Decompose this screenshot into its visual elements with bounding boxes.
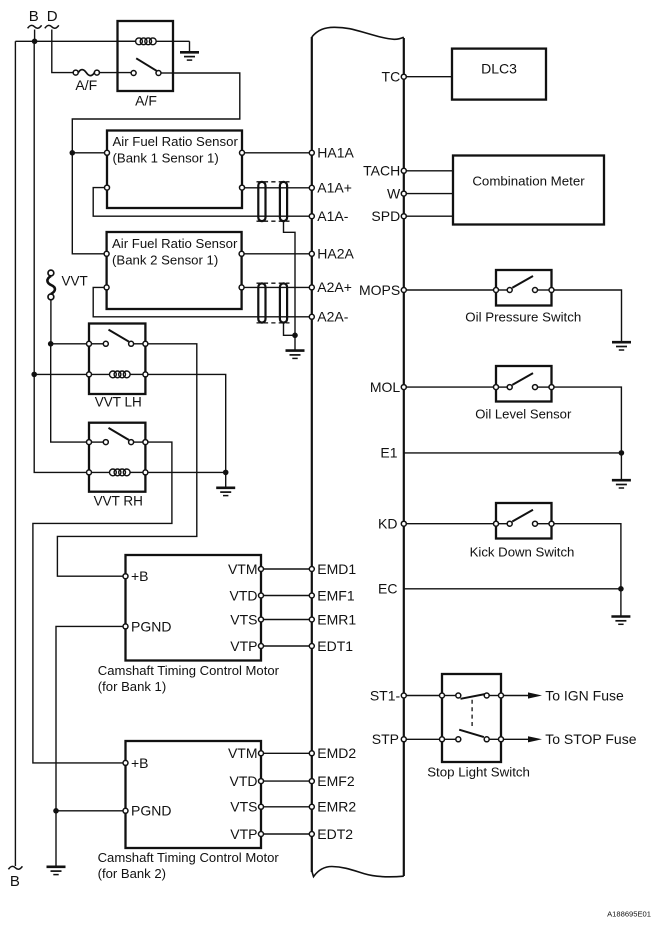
svg-text:E1: E1 xyxy=(380,445,397,461)
pin EDT2 xyxy=(309,832,314,837)
svg-text:Oil Level Sensor: Oil Level Sensor xyxy=(475,407,572,422)
svg-text:VTD: VTD xyxy=(230,587,258,603)
node D top xyxy=(45,8,59,28)
pin SPD xyxy=(401,214,406,219)
wire D vertical xyxy=(52,30,74,73)
pin EMR1 xyxy=(309,617,314,622)
wire ST1- xyxy=(406,695,439,697)
relay A/F coil xyxy=(118,38,190,45)
svg-text:EDT2: EDT2 xyxy=(317,826,353,842)
svg-text:Kick Down Switch: Kick Down Switch xyxy=(470,545,575,560)
arrow STOP xyxy=(528,736,542,742)
relay A/F switch xyxy=(131,58,173,75)
svg-text:EMF2: EMF2 xyxy=(317,773,355,789)
junction dot E1 xyxy=(619,450,625,456)
pin bank2 TL xyxy=(104,251,109,256)
wire feed to bank2 sensor xyxy=(72,153,104,254)
Camshaft Timing Control Motor bank2 box xyxy=(126,741,262,848)
wire MOPS ground xyxy=(554,290,622,341)
Air Fuel Ratio Sensor Bank 2 box xyxy=(107,232,242,309)
wire E1 xyxy=(404,452,622,454)
pin HA2A xyxy=(309,251,314,256)
pin STP xyxy=(401,737,406,742)
wire VTS-EMR2 xyxy=(264,806,310,808)
wire VTM-EMD2 xyxy=(264,752,310,754)
svg-text:EDT1: EDT1 xyxy=(317,638,353,654)
Oil Pressure Switch box xyxy=(496,270,552,306)
junction dot VVT coils ground xyxy=(223,470,229,476)
pin bank2 BL xyxy=(104,285,109,290)
svg-text:VVT LH: VVT LH xyxy=(95,395,142,410)
wire TC xyxy=(406,76,452,78)
svg-text:VTM: VTM xyxy=(228,745,258,761)
svg-text:EMD2: EMD2 xyxy=(317,745,356,761)
svg-text:To IGN Fuse: To IGN Fuse xyxy=(545,687,624,703)
svg-text:DLC3: DLC3 xyxy=(481,60,517,76)
wire STP xyxy=(406,738,439,740)
pin A1A+ xyxy=(309,185,314,190)
svg-text:VTP: VTP xyxy=(230,826,257,842)
svg-text:VTS: VTS xyxy=(230,799,257,815)
wire VTP-EDT2 xyxy=(264,833,310,835)
pin bank1 BR xyxy=(240,185,245,190)
pin EMF1 xyxy=(309,593,314,598)
svg-text:EMD1: EMD1 xyxy=(317,561,356,577)
relay VVT RH box xyxy=(89,423,145,492)
svg-text:VVT: VVT xyxy=(62,274,88,289)
svg-text:EMF1: EMF1 xyxy=(317,587,355,603)
pin EMD1 xyxy=(309,567,314,572)
pin VTM bank1 xyxy=(259,567,264,572)
wire VVT LH coil to ground junction xyxy=(148,374,226,472)
pin MOL xyxy=(401,385,406,390)
relay VVT RH switch xyxy=(87,428,148,445)
wire MOL to E1 junction xyxy=(554,387,621,453)
svg-text:Camshaft Timing Control Motor: Camshaft Timing Control Motor xyxy=(98,663,280,678)
wire MOPS xyxy=(406,289,493,291)
svg-text:A2A+: A2A+ xyxy=(317,279,352,295)
wire VTP-EDT1 xyxy=(264,645,310,647)
ground VVT coils xyxy=(216,472,235,495)
pin VTP bank2 xyxy=(259,832,264,837)
svg-text:STP: STP xyxy=(372,731,399,747)
wire VTS-EMR1 xyxy=(264,619,310,621)
svg-text:A/F: A/F xyxy=(75,77,97,93)
wire VVT RH switch to +B bank2 xyxy=(33,442,172,763)
Kick Down Switch box xyxy=(496,503,552,539)
node B top xyxy=(28,8,42,41)
svg-text:A2A-: A2A- xyxy=(317,309,348,325)
fuse A/F xyxy=(73,70,131,76)
wire relay to sensors feed xyxy=(72,73,240,153)
stop light switch STP contacts xyxy=(440,730,504,742)
wire PGND bank1 down xyxy=(56,626,123,810)
wire to VVT LH switch xyxy=(51,343,87,345)
wire A1A- xyxy=(93,188,309,217)
pin PGND bank2 xyxy=(123,808,128,813)
wire KD to EC junction xyxy=(554,524,621,589)
ECM bus body xyxy=(312,27,404,876)
wire TACH xyxy=(406,170,453,172)
svg-text:A1A-: A1A- xyxy=(317,208,348,224)
relay A/F box xyxy=(118,21,174,91)
pin +B bank2 xyxy=(123,760,128,765)
pin EDT1 xyxy=(309,644,314,649)
junction dot VVT LH coil feed xyxy=(31,372,37,378)
pin EMF2 xyxy=(309,779,314,784)
wire to VVT RH switch xyxy=(51,344,87,442)
pin bank1 BL xyxy=(105,185,110,190)
svg-text:(Bank 1 Sensor 1): (Bank 1 Sensor 1) xyxy=(113,151,219,166)
svg-text:PGND: PGND xyxy=(131,803,171,819)
wire B left vertical xyxy=(14,41,16,866)
twisted pair shield bank1 xyxy=(257,182,290,221)
svg-text:MOPS: MOPS xyxy=(359,282,400,298)
ground EC xyxy=(611,589,630,625)
wire W xyxy=(406,193,453,195)
svg-text:Air Fuel Ratio Sensor: Air Fuel Ratio Sensor xyxy=(113,134,239,149)
wire SPD xyxy=(406,215,453,217)
svg-text:A/F: A/F xyxy=(135,92,157,108)
pin bank2 BR xyxy=(239,285,244,290)
arrow IGN xyxy=(528,692,542,698)
pin VTD bank1 xyxy=(259,593,264,598)
junction dot VVT LH switch feed xyxy=(48,341,54,347)
pin A1A- xyxy=(309,214,314,219)
pin W xyxy=(401,191,406,196)
svg-text:VTM: VTM xyxy=(228,561,258,577)
relay VVT RH coil xyxy=(87,469,148,476)
junction dot sensor feed xyxy=(70,150,76,156)
wire KD xyxy=(406,523,493,525)
wire VVT LH switch to +B bank1 xyxy=(57,344,196,576)
wire B to VVT coils xyxy=(33,41,35,374)
wire shield drain bank2 xyxy=(284,323,296,335)
wire B top horizontal xyxy=(15,40,136,42)
svg-text:PGND: PGND xyxy=(131,618,171,634)
svg-text:HA2A: HA2A xyxy=(317,246,354,262)
svg-text:HA1A: HA1A xyxy=(317,145,354,161)
wire A2A+ xyxy=(244,286,309,288)
wire VTM-EMD1 xyxy=(264,568,310,570)
pin MOPS xyxy=(401,288,406,293)
pin PGND bank1 xyxy=(123,624,128,629)
ground PGND xyxy=(47,811,66,875)
svg-text:EMR2: EMR2 xyxy=(317,799,356,815)
wire to VVT RH coil xyxy=(34,374,86,472)
svg-text:Stop Light Switch: Stop Light Switch xyxy=(427,764,530,779)
svg-text:EMR1: EMR1 xyxy=(317,611,356,627)
fuse VVT xyxy=(47,270,55,300)
pin KD xyxy=(401,521,406,526)
pin +B bank1 xyxy=(123,574,128,579)
svg-text:VTS: VTS xyxy=(230,611,257,627)
svg-text:MOL: MOL xyxy=(370,379,401,395)
DLC3 box xyxy=(452,49,546,100)
svg-text:Combination Meter: Combination Meter xyxy=(472,173,585,188)
Combination Meter box xyxy=(453,156,604,225)
pin TC xyxy=(401,74,406,79)
junction dot B xyxy=(32,39,38,45)
svg-text:(Bank 2 Sensor 1): (Bank 2 Sensor 1) xyxy=(112,252,218,267)
svg-text:B: B xyxy=(29,8,39,25)
pin VTD bank2 xyxy=(259,779,264,784)
svg-text:A188695E01: A188695E01 xyxy=(607,910,651,919)
svg-text:To STOP Fuse: To STOP Fuse xyxy=(545,731,637,747)
wire shield drain bank1 xyxy=(284,221,296,335)
wire A1A+ xyxy=(245,187,310,189)
node B bottom xyxy=(8,866,22,890)
Oil Level Sensor box xyxy=(496,366,552,402)
Stop Light Switch box xyxy=(442,674,501,762)
wire VTD-EMF1 xyxy=(264,595,310,597)
relay VVT LH switch xyxy=(87,330,148,347)
svg-text:D: D xyxy=(47,8,58,25)
wire to IGN fuse xyxy=(504,695,529,697)
stop light switch link xyxy=(471,700,473,729)
pin EMD2 xyxy=(309,751,314,756)
wire HA1A xyxy=(245,152,310,154)
wire MOL xyxy=(406,386,493,388)
pin VTS bank2 xyxy=(259,804,264,809)
wire HA2A xyxy=(244,253,309,255)
wire to VVT LH coil xyxy=(34,373,86,375)
svg-text:Camshaft Timing Control Motor: Camshaft Timing Control Motor xyxy=(98,850,280,865)
wire feed to bank1 sensor xyxy=(72,152,104,154)
wire VVT RH coil to ground junction xyxy=(148,471,226,473)
svg-text:W: W xyxy=(387,185,401,201)
svg-text:EC: EC xyxy=(378,581,397,597)
junction dot EC xyxy=(618,586,624,592)
pin A2A+ xyxy=(309,285,314,290)
pin VTS bank1 xyxy=(259,617,264,622)
svg-text:+B: +B xyxy=(131,755,149,771)
wire EC xyxy=(404,588,621,590)
twisted pair shield bank2 xyxy=(257,283,290,323)
svg-text:(for Bank 2): (for Bank 2) xyxy=(98,866,166,881)
pin ST1- xyxy=(401,693,406,698)
pin bank1 TL xyxy=(105,150,110,155)
ground relay A/F xyxy=(180,41,199,60)
wire to STOP fuse xyxy=(504,738,529,740)
pin bank1 TR xyxy=(240,150,245,155)
svg-text:B: B xyxy=(10,873,20,890)
pin bank2 TR xyxy=(239,251,244,256)
pin EMR2 xyxy=(309,804,314,809)
svg-text:A1A+: A1A+ xyxy=(317,180,352,196)
Camshaft Timing Control Motor bank1 box xyxy=(126,555,262,661)
svg-text:VTP: VTP xyxy=(230,638,257,654)
junction dot PGND xyxy=(53,808,59,814)
svg-text:KD: KD xyxy=(378,516,397,532)
svg-text:Oil Pressure Switch: Oil Pressure Switch xyxy=(465,310,581,325)
svg-text:VTD: VTD xyxy=(230,773,258,789)
wire VTD-EMF2 xyxy=(264,780,310,782)
svg-text:SPD: SPD xyxy=(371,208,400,224)
svg-text:Air Fuel Ratio Sensor: Air Fuel Ratio Sensor xyxy=(112,236,238,251)
wire A2A- xyxy=(93,287,309,316)
relay VVT LH box xyxy=(89,324,145,395)
svg-text:VVT RH: VVT RH xyxy=(94,493,143,508)
Air Fuel Ratio Sensor Bank 1 box xyxy=(107,131,242,209)
junction dot shields xyxy=(292,333,298,339)
svg-text:TACH: TACH xyxy=(363,163,400,179)
svg-text:+B: +B xyxy=(131,568,149,584)
pin VTM bank2 xyxy=(259,751,264,756)
pin VTP bank1 xyxy=(259,644,264,649)
ground MOPS xyxy=(612,342,631,350)
wire PGND bank2 xyxy=(56,810,123,812)
svg-text:TC: TC xyxy=(382,69,401,85)
stop light switch ST1 contacts xyxy=(440,693,504,699)
ground shields xyxy=(286,335,305,358)
svg-text:ST1-: ST1- xyxy=(370,687,401,703)
pin A2A- xyxy=(309,314,314,319)
pin TACH xyxy=(401,168,406,173)
pin HA1A xyxy=(309,150,314,155)
wire VVT feed xyxy=(50,300,52,344)
relay VVT LH coil xyxy=(87,371,148,378)
ground E1 xyxy=(612,453,631,488)
svg-text:(for Bank 1): (for Bank 1) xyxy=(98,679,166,694)
